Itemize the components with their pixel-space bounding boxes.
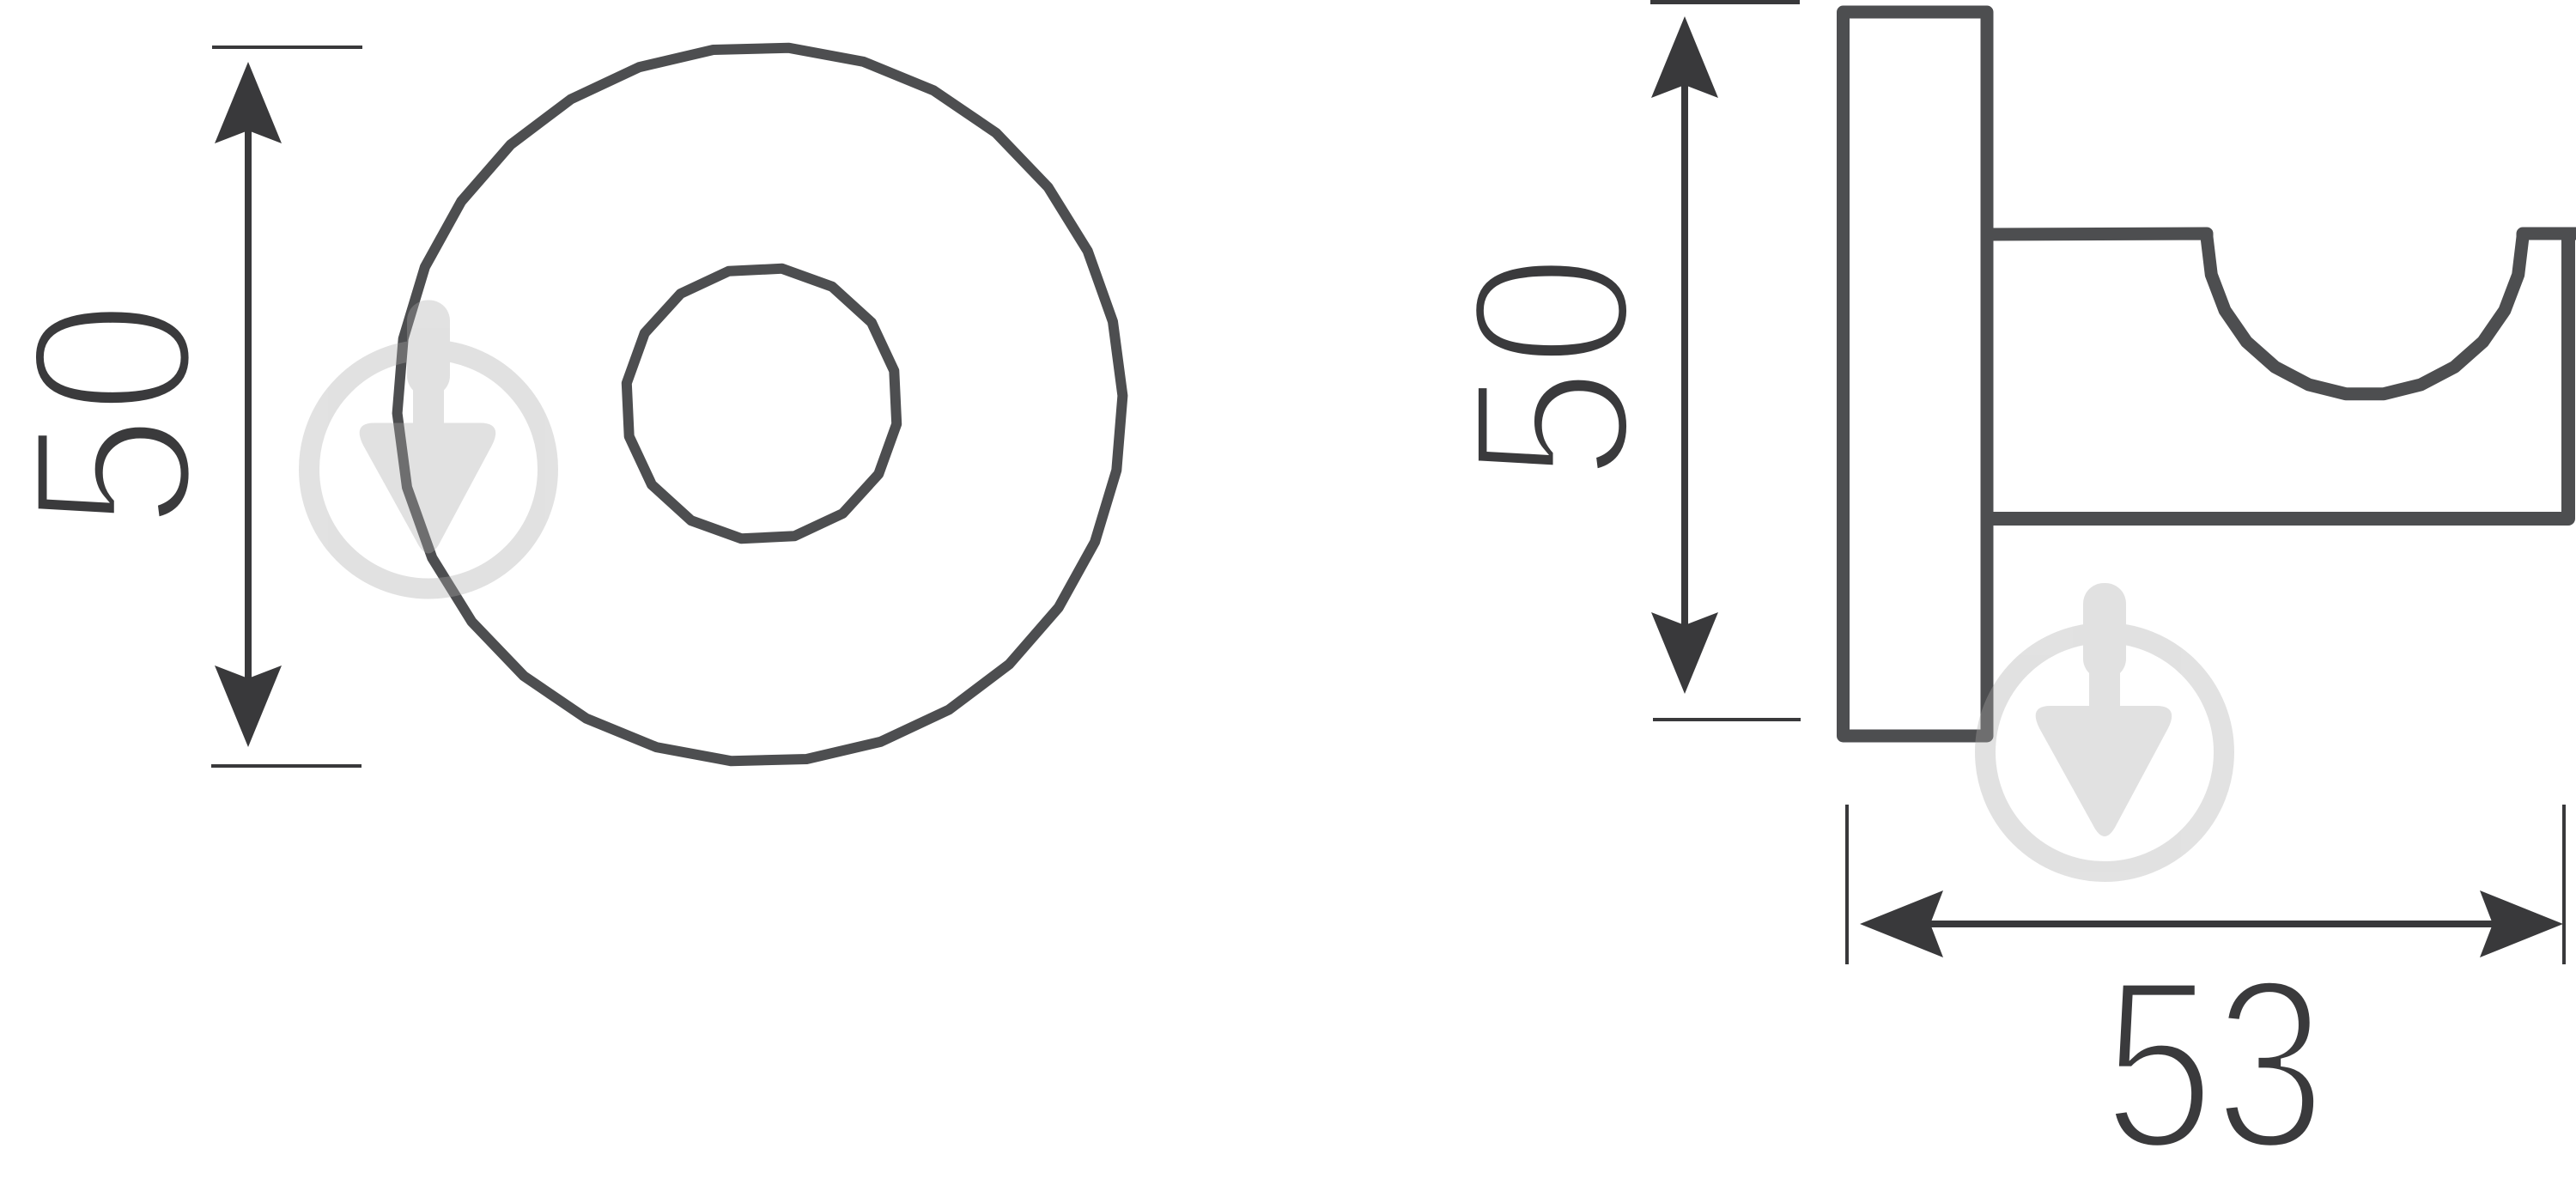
bottom dim 53: left extension tick: [1845, 805, 1849, 964]
front view: outer disc circle: [398, 48, 1123, 761]
right dim 50: bottom extension tick: [1653, 718, 1801, 721]
left dim: vertical dimension line: [245, 94, 252, 714]
front view: inner hole circle: [627, 269, 896, 538]
svg-text:50: 50: [0, 301, 240, 530]
left dim: top extension tick: [212, 46, 362, 49]
side view: arm top contour with rod cradle notch: [1987, 234, 2576, 394]
watermark logo right (trowel in circle): [1985, 583, 2224, 872]
side view: arm right edge and bottom edge: [1987, 235, 2568, 519]
bottom dim 53: right extension tick: [2562, 805, 2566, 964]
svg-text:53: 53: [2104, 929, 2326, 1185]
bottom dim 53: horizontal dimension line: [1893, 921, 2529, 927]
right dim 50: bottom arrowhead: [1651, 612, 1718, 694]
right dim 50: top extension tick: [1650, 0, 1800, 4]
bottom dim 53: left arrowhead: [1860, 890, 1943, 957]
left dim: bottom arrowhead: [215, 665, 282, 747]
svg-text:50: 50: [1427, 254, 1677, 482]
right dim 50: top arrowhead: [1651, 16, 1718, 98]
right dim 50: vertical dimension line: [1681, 52, 1688, 661]
left dim: bottom extension tick: [211, 764, 361, 768]
bottom dim 53: right arrowhead: [2480, 890, 2563, 957]
left dim: top arrowhead: [215, 62, 282, 143]
watermark logo left (trowel in circle): [309, 301, 548, 589]
side view: wall plate rectangle: [1844, 12, 1988, 736]
